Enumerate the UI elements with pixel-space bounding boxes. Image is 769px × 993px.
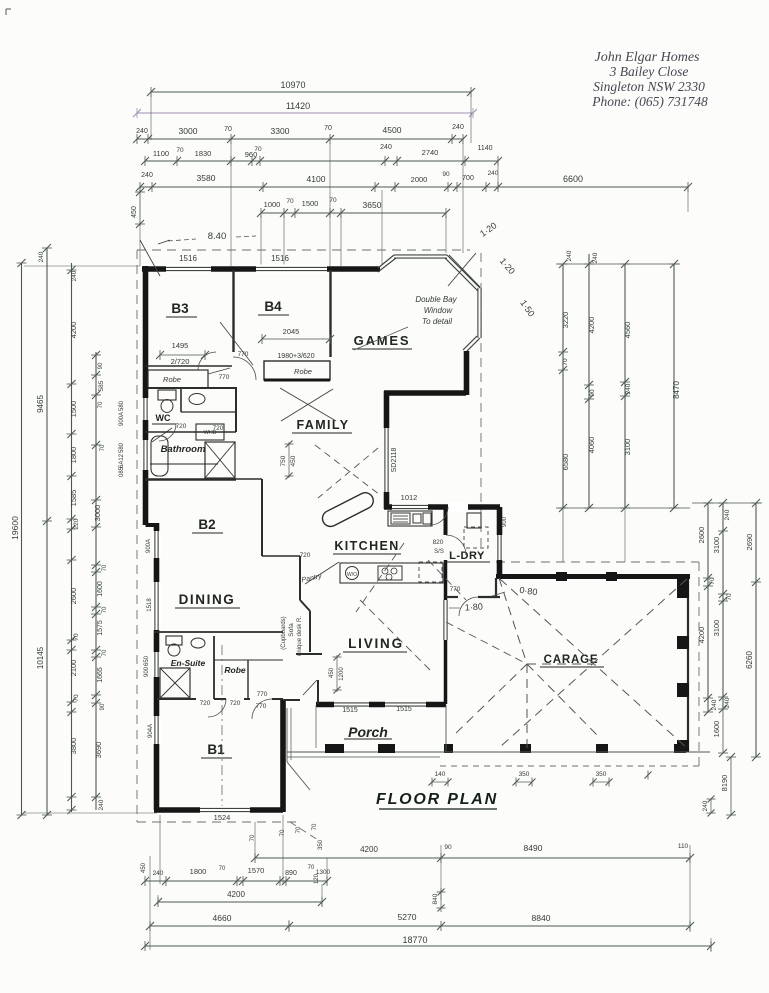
svg-text:Bathroom: Bathroom: [161, 444, 206, 455]
svg-text:1495: 1495: [172, 341, 189, 350]
svg-text:1515: 1515: [396, 706, 412, 713]
right chain 1600: [712, 709, 728, 757]
svg-text:580: 580: [119, 442, 125, 453]
svg-text:70: 70: [102, 564, 108, 571]
l-dry tub and hws: [464, 513, 488, 548]
room label B3: [166, 301, 197, 317]
svg-text:3800: 3800: [69, 738, 78, 755]
svg-text:4200: 4200: [587, 317, 596, 334]
wall: l-dry south: [446, 586, 500, 597]
wall: games east thick: [464, 351, 470, 395]
svg-text:2/720: 2/720: [171, 357, 190, 366]
svg-text:W/O: W/O: [347, 572, 357, 578]
svg-text:350: 350: [318, 839, 324, 850]
room label DINING: [175, 592, 240, 608]
room label KITCHEN: [333, 539, 401, 554]
svg-text:240: 240: [625, 383, 632, 394]
svg-text:Window: Window: [424, 306, 454, 315]
svg-text:8470: 8470: [672, 381, 681, 399]
svg-text:6580: 6580: [561, 454, 570, 471]
svg-text:LIVING: LIVING: [348, 636, 404, 651]
svg-text:770: 770: [256, 703, 267, 710]
svg-text:70: 70: [73, 633, 80, 641]
svg-text:70: 70: [308, 865, 315, 871]
wall: garage east with piers: [677, 576, 689, 752]
svg-text:8.40: 8.40: [208, 231, 227, 242]
svg-text:240: 240: [724, 509, 731, 520]
wall: B1 bottom exterior with 1524 window: [154, 806, 283, 823]
right chains bottom tick line: [556, 508, 690, 562]
extension lines bottom: [150, 815, 711, 952]
svg-text:770: 770: [257, 691, 268, 698]
svg-text:3000: 3000: [179, 126, 198, 136]
svg-text:1575: 1575: [97, 620, 104, 636]
svg-text:900A: 900A: [119, 412, 125, 426]
sofa labels rotated: [281, 616, 303, 656]
svg-text:2600: 2600: [69, 588, 78, 605]
garage north wall piers: [556, 572, 617, 581]
porch slab corner: [287, 708, 310, 790]
B2 walls: [145, 479, 262, 556]
porch piers: [325, 744, 395, 753]
svg-text:1515: 1515: [342, 707, 358, 714]
note 8.40 with leader: [158, 231, 256, 244]
svg-text:9465: 9465: [36, 395, 45, 413]
svg-text:KITCHEN: KITCHEN: [334, 539, 399, 553]
title FLOOR PLAN: [376, 791, 498, 809]
svg-text:FLOOR PLAN: FLOOR PLAN: [376, 791, 498, 808]
svg-text:6A12: 6A12: [119, 453, 125, 468]
B4 robe box with dims: [238, 327, 334, 380]
notes 0.80 and 1.80: [449, 585, 538, 613]
bottom row 18770: [141, 935, 715, 951]
page corner mark: [6, 9, 11, 15]
svg-text:John Elgar Homes: John Elgar Homes: [595, 50, 701, 65]
interior wall B3 south: [145, 365, 232, 367]
svg-text:720: 720: [230, 700, 241, 707]
svg-text:4200: 4200: [360, 845, 378, 854]
kitchen top bench with oven: [388, 511, 432, 526]
svg-text:90: 90: [100, 703, 106, 710]
dimension 6600: [498, 174, 692, 192]
svg-text:70: 70: [102, 606, 108, 613]
wall: living south with 1515 windows: [316, 700, 446, 714]
roof valley dashes living: [356, 543, 525, 672]
room label B2: [192, 517, 223, 533]
svg-text:2600: 2600: [697, 527, 706, 544]
bottom small 840 dim: [432, 888, 446, 912]
svg-text:240: 240: [98, 799, 105, 810]
svg-text:580: 580: [119, 400, 125, 411]
wall: l-dry east: [498, 507, 508, 578]
svg-text:1516: 1516: [271, 254, 289, 263]
svg-text:8490: 8490: [524, 843, 543, 853]
wall: top exterior with 1516 windows: [142, 254, 380, 274]
room label B1: [201, 742, 232, 758]
extension lines left: [24, 266, 157, 813]
svg-text:70: 70: [296, 826, 302, 833]
svg-text:240: 240: [380, 144, 392, 151]
svg-text:1980+3/620: 1980+3/620: [277, 353, 314, 360]
svg-text:90: 90: [98, 362, 104, 369]
svg-text:2690: 2690: [745, 534, 754, 551]
svg-text:2100: 2100: [69, 660, 78, 677]
svg-text:720: 720: [176, 423, 187, 430]
wall: B1 east: [280, 700, 286, 812]
en-suite fixtures: [160, 636, 205, 698]
door swing arcs: [159, 352, 478, 719]
room label GARAGE: [540, 654, 604, 667]
svg-text:3650: 3650: [363, 200, 382, 210]
svg-text:240: 240: [566, 250, 573, 261]
svg-text:70: 70: [73, 694, 80, 702]
svg-text:B4: B4: [264, 299, 282, 314]
svg-text:70: 70: [329, 197, 337, 204]
title block: John Elgar Homes: [591, 50, 708, 109]
svg-text:350: 350: [596, 771, 607, 778]
kitchen curved breakfast bar: [320, 490, 376, 529]
left small window labels: [119, 400, 154, 738]
svg-text:90: 90: [589, 389, 596, 397]
svg-text:450: 450: [329, 667, 335, 678]
svg-text:240: 240: [452, 124, 464, 131]
svg-text:4060: 4060: [587, 437, 596, 454]
kitchen island bench sink wo: [340, 562, 443, 583]
svg-text:1570: 1570: [248, 866, 265, 875]
svg-text:5270: 5270: [398, 912, 417, 922]
wall: bay window top right of games: [378, 253, 481, 352]
svg-text:1·80: 1·80: [464, 601, 483, 612]
svg-text:1585: 1585: [69, 490, 78, 507]
wall: kitchen-ldry west wall above door: [444, 507, 448, 535]
svg-text:720: 720: [213, 425, 224, 432]
porch support lines: [316, 705, 446, 752]
svg-text:1300: 1300: [316, 869, 331, 876]
svg-text:FAMILY: FAMILY: [296, 418, 349, 432]
svg-text:3580: 3580: [197, 173, 216, 183]
svg-text:70: 70: [709, 577, 716, 585]
svg-text:1800: 1800: [69, 447, 78, 464]
svg-text:90: 90: [442, 171, 450, 178]
svg-text:1665: 1665: [97, 667, 104, 683]
svg-text:11420: 11420: [286, 101, 310, 111]
hall door B1: [257, 691, 300, 700]
svg-text:3690: 3690: [94, 742, 103, 759]
dimension 10970 top row: [147, 80, 475, 97]
svg-text:unique desk R.: unique desk R.: [297, 616, 303, 656]
right chain 2690/6260: [745, 499, 761, 761]
wall: garage west stub: [495, 578, 497, 598]
svg-text:240: 240: [141, 172, 153, 179]
bathroom walls and fixtures: [145, 424, 236, 480]
living west wall stub and door: [303, 680, 318, 704]
eaves dashed outline garage: [440, 562, 699, 766]
svg-text:Phone: (065) 731748: Phone: (065) 731748: [591, 94, 708, 109]
svg-text:1000: 1000: [264, 200, 281, 209]
svg-text:Porch: Porch: [348, 724, 388, 740]
room label GAMES: [352, 333, 412, 349]
svg-text:8190: 8190: [720, 775, 729, 792]
dimension row 240/3580/4100/90/2000/700/240: [136, 170, 502, 192]
room label LIVING: [343, 636, 407, 652]
living small vertical dim 1200 1300: [329, 654, 345, 694]
right chain 8190: [702, 753, 736, 819]
right chain 240/3100/70/3100/240: [712, 499, 733, 713]
small vertical dim 450 top left: [131, 188, 145, 228]
svg-text:1200: 1200: [339, 667, 345, 681]
svg-text:70: 70: [100, 444, 106, 451]
right chain 4560/240/3100: [620, 260, 632, 512]
svg-text:19600: 19600: [10, 516, 20, 540]
bottom small cluster labels: [141, 822, 327, 906]
svg-text:140: 140: [435, 771, 446, 778]
svg-text:240: 240: [724, 697, 731, 708]
svg-text:70: 70: [176, 147, 184, 154]
dimension row 1000/70/1500/70/3650: [257, 197, 450, 218]
svg-text:Sofa: Sofa: [288, 623, 295, 637]
svg-text:70: 70: [726, 593, 733, 601]
svg-text:450: 450: [141, 862, 147, 873]
svg-text:4200: 4200: [69, 322, 78, 339]
svg-text:840: 840: [432, 893, 439, 904]
bottom row 240/1800/70/1570/890/70/1300: [141, 865, 331, 886]
svg-text:240: 240: [38, 251, 45, 262]
svg-text:3220: 3220: [561, 312, 570, 329]
svg-text:900: 900: [502, 516, 508, 527]
svg-text:3100: 3100: [712, 537, 721, 554]
left chain 240/9465/10145: [36, 244, 52, 819]
en-suite and robe walls: [154, 632, 283, 710]
dining/kitchen wall and pantry: [262, 552, 339, 654]
right chain 8470: [669, 260, 681, 512]
svg-text:90: 90: [444, 844, 452, 851]
svg-text:770: 770: [450, 586, 461, 593]
svg-text:70: 70: [562, 358, 569, 366]
svg-text:1100: 1100: [153, 149, 169, 158]
svg-text:70: 70: [286, 198, 294, 205]
dimension row 1100/70/1830/960 ... 240/2740/1140: [141, 144, 502, 166]
svg-text:900A: 900A: [146, 539, 152, 553]
svg-text:1524: 1524: [214, 813, 231, 822]
svg-text:240: 240: [488, 170, 499, 177]
B3 interior dim 1495 2/720: [156, 341, 209, 366]
svg-text:1830: 1830: [195, 149, 212, 158]
left chain window dims: [91, 351, 108, 810]
svg-text:240: 240: [71, 270, 78, 281]
svg-text:B2: B2: [198, 517, 215, 532]
svg-text:1600: 1600: [712, 721, 721, 738]
svg-text:3100: 3100: [712, 620, 721, 637]
svg-text:3 Bailey Close: 3 Bailey Close: [609, 64, 689, 79]
svg-text:10145: 10145: [36, 646, 45, 669]
dimension row 240/3000/70/3300/70/4500/240: [133, 124, 467, 144]
family roof cross dashes: [315, 445, 380, 498]
room label L-DRY: [444, 550, 490, 562]
right chain 240/4200/90/4060: [584, 254, 596, 512]
svg-text:3000: 3000: [93, 505, 102, 522]
eaves dashed outline left and top: [137, 250, 481, 822]
svg-text:700: 700: [462, 175, 474, 182]
svg-text:L-DRY: L-DRY: [449, 550, 485, 562]
svg-text:4560: 4560: [623, 322, 632, 339]
wall: left jog: [146, 523, 158, 527]
svg-text:4200: 4200: [697, 627, 706, 644]
svg-text:Double Bay: Double Bay: [415, 295, 457, 304]
svg-text:750: 750: [280, 455, 287, 466]
svg-text:4500: 4500: [383, 125, 402, 135]
extension lines top: [140, 95, 688, 266]
svg-text:70: 70: [219, 866, 226, 872]
svg-text:770: 770: [219, 374, 230, 381]
note double bay window to detail: [354, 295, 458, 350]
right chain 2600/70/4200/240: [697, 499, 718, 716]
svg-text:2740: 2740: [422, 148, 439, 157]
svg-text:3100: 3100: [623, 439, 632, 456]
svg-text:SD2118: SD2118: [391, 448, 398, 473]
interior wall B3/B4: [220, 270, 253, 365]
wall: kitchen north with 1012 window: [384, 493, 500, 512]
garage hip roof dashed lines: [452, 578, 687, 750]
svg-text:650: 650: [144, 655, 150, 666]
wall: garage north: [496, 574, 690, 579]
svg-text:220: 220: [73, 518, 80, 529]
svg-text:720: 720: [300, 552, 311, 559]
svg-text:B3: B3: [171, 301, 189, 316]
WC walls and fixtures: [152, 387, 236, 442]
svg-text:6600: 6600: [563, 174, 583, 184]
notes 1-20 scale marks: [478, 220, 537, 318]
room label FAMILY: [280, 388, 352, 433]
svg-text:WC: WC: [156, 413, 171, 423]
svg-text:1140: 1140: [477, 145, 492, 152]
svg-text:Robe: Robe: [294, 367, 312, 376]
svg-text:S/S: S/S: [434, 549, 444, 555]
B1 centre dashed line: [221, 645, 223, 806]
room label Robe ensuite: [224, 665, 246, 675]
svg-text:240: 240: [592, 252, 599, 263]
bottom row 4200b: [154, 890, 326, 907]
left chain 19600: [10, 259, 27, 819]
svg-text:70: 70: [254, 146, 262, 153]
eaves corner dash bottom left: [290, 822, 318, 840]
svg-text:70: 70: [224, 126, 232, 133]
dimension 11420: [133, 101, 477, 118]
svg-text:Robe: Robe: [224, 665, 246, 675]
right chain 3220/70/6580: [558, 260, 570, 512]
garage south piers: [287, 744, 710, 757]
svg-text:6260: 6260: [745, 651, 754, 669]
svg-text:Singleton NSW 2330: Singleton NSW 2330: [593, 79, 705, 94]
room label Porch: [344, 724, 392, 740]
left chain 4200/1500/1800/1585/220/2600/70/2100/70/3800: [67, 263, 81, 814]
svg-text:70: 70: [98, 401, 104, 408]
roof diagonal top-left corner: [140, 240, 160, 276]
svg-text:2045: 2045: [283, 327, 300, 336]
svg-text:1516: 1516: [179, 254, 197, 263]
svg-text:DINING: DINING: [179, 592, 236, 607]
svg-text:3300: 3300: [271, 126, 290, 136]
svg-text:70: 70: [324, 125, 332, 132]
svg-text:1500: 1500: [302, 199, 319, 208]
svg-text:085: 085: [119, 466, 125, 477]
svg-text:585: 585: [98, 380, 105, 391]
svg-text:En-Suite: En-Suite: [171, 658, 206, 668]
svg-text:70: 70: [312, 823, 318, 830]
svg-text:18770: 18770: [402, 935, 427, 945]
window SD2118 sliding door: [385, 428, 398, 492]
svg-text:240: 240: [153, 870, 164, 877]
svg-text:1012: 1012: [401, 493, 418, 502]
family small vertical dim: [280, 441, 297, 480]
svg-text:1600: 1600: [97, 581, 104, 597]
svg-text:820: 820: [433, 539, 444, 546]
room label B4: [258, 299, 289, 315]
svg-text:B1: B1: [207, 742, 225, 757]
svg-text:770: 770: [238, 351, 249, 358]
svg-text:Robe: Robe: [163, 375, 181, 384]
wall: living east: [444, 560, 447, 704]
interior wall B4/games: [329, 270, 331, 357]
room label En-Suite: [171, 658, 206, 668]
right side connector line: [692, 502, 762, 504]
bottom row 4660/5270/8840: [146, 912, 694, 931]
svg-text:350: 350: [519, 771, 530, 778]
svg-text:450: 450: [290, 455, 297, 466]
svg-text:110: 110: [678, 843, 689, 850]
svg-text:2000: 2000: [411, 175, 428, 184]
wall: family east lower: [384, 492, 390, 509]
svg-text:10970: 10970: [280, 80, 305, 90]
svg-text:240: 240: [711, 699, 718, 710]
right upper dim chains header line: [556, 250, 680, 264]
svg-text:1800: 1800: [190, 867, 207, 876]
B3 robe box: [148, 368, 236, 388]
wall: games south / family east step: [384, 390, 466, 396]
svg-text:8840: 8840: [532, 913, 551, 923]
svg-text:70: 70: [102, 649, 108, 656]
door 820 kitchen to ldry: [433, 539, 444, 555]
svg-text:GAMES: GAMES: [354, 333, 411, 348]
svg-text:4660: 4660: [213, 913, 232, 923]
svg-text:(Cupboards): (Cupboards): [281, 616, 287, 649]
svg-text:900: 900: [144, 666, 150, 677]
svg-text:1500: 1500: [69, 401, 78, 418]
garage door dims: [429, 771, 652, 787]
wall: family east upper: [384, 391, 390, 428]
wall: left exterior upper: [141, 266, 150, 525]
svg-text:4100: 4100: [307, 174, 326, 184]
bottom row 4200/90/8490: [251, 843, 694, 863]
svg-text:890: 890: [285, 870, 297, 877]
svg-text:240: 240: [136, 128, 148, 135]
svg-text:720: 720: [200, 700, 211, 707]
svg-text:To detail: To detail: [422, 317, 452, 326]
svg-text:4200: 4200: [227, 890, 245, 899]
svg-text:450: 450: [131, 206, 138, 218]
wall: left exterior lower with windows: [152, 523, 161, 810]
